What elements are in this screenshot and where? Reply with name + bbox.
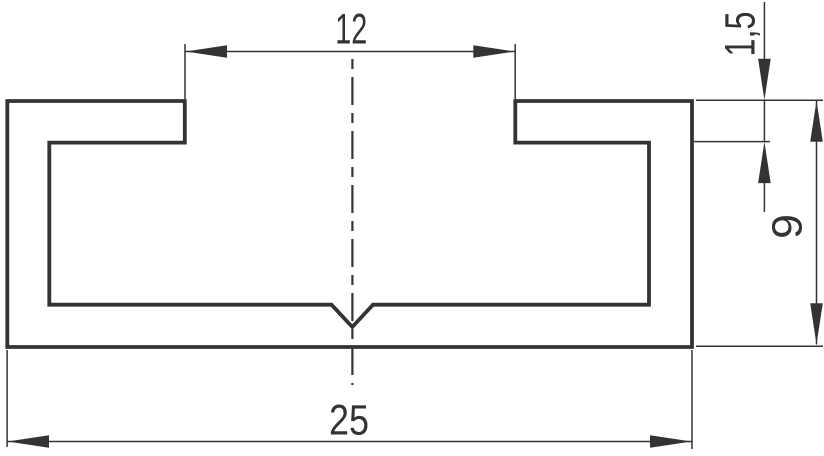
svg-text:12: 12 (335, 7, 367, 54)
svg-text:1,5: 1,5 (718, 12, 765, 57)
svg-text:25: 25 (329, 398, 369, 445)
svg-text:9: 9 (765, 214, 812, 239)
